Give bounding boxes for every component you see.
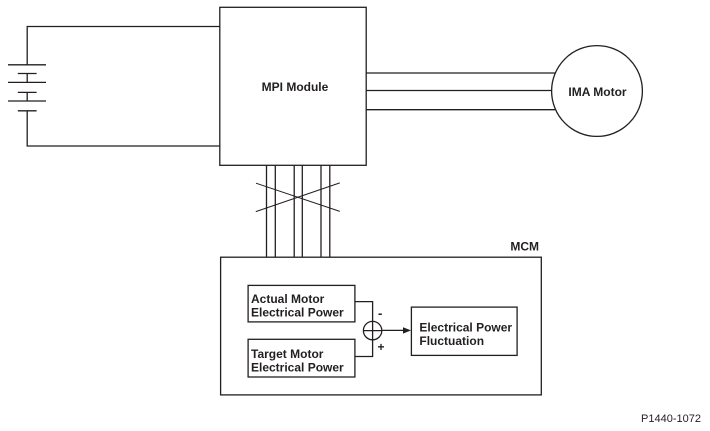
svg-text:Electrical Power: Electrical Power [419,320,512,334]
Electrical Power Fluctuation box [411,307,517,355]
svg-text:Electrical Power: Electrical Power [251,360,344,374]
Actual Motor Electrical Power box [248,285,355,322]
wire motor phase C [366,109,557,111]
battery B1 plate short 1 [18,73,37,75]
wire battery cell link 2 [26,92,28,101]
wire summing node to fluctuation box [382,329,404,331]
fault cross mark stroke 2 [256,183,340,212]
battery B1 plate long 1 [8,64,46,66]
IMA Motor circle [552,46,643,137]
svg-text:Actual Motor: Actual Motor [251,292,325,306]
MPI Module box [220,7,366,165]
svg-text:P1440-1072: P1440-1072 [641,413,701,425]
wire battery loop bottom [27,111,220,146]
svg-text:Electrical Power: Electrical Power [251,305,344,319]
wire motor phase B [366,90,553,92]
wire actual power to summing node [355,302,373,322]
wire bundle line 2 [274,165,276,257]
svg-text:+: + [377,340,384,354]
battery B1 plate short 2 [18,91,37,93]
battery B1 plate long 2 [8,81,46,83]
svg-text:Fluctuation: Fluctuation [419,334,484,348]
svg-text:Target Motor: Target Motor [251,347,324,361]
wire bundle line 6 [329,165,331,257]
svg-text:MCM: MCM [510,240,539,254]
summing junction circle [363,321,381,339]
summing junction horizontal cross line [363,330,381,332]
wire bundle line 3 [293,165,295,257]
wire battery loop top [27,27,220,65]
wire motor phase A [366,72,557,74]
summing junction vertical cross line [372,321,374,339]
svg-text:-: - [378,306,382,321]
svg-text:MPI Module: MPI Module [262,80,329,94]
wire battery cell link 1 [26,74,28,83]
wire bundle line 4 [301,165,303,257]
svg-text:IMA Motor: IMA Motor [568,85,627,99]
fault cross mark stroke 1 [256,183,340,211]
wire target power to summing node [355,340,373,357]
battery B1 plate short 3 [18,110,37,112]
Target Motor Electrical Power box [248,339,355,377]
wire bundle line 5 [320,165,322,257]
MCM box [221,257,542,395]
battery B1 plate long 3 [8,100,46,102]
wire bundle line 1 [266,165,268,257]
arrowhead into fluctuation box [403,327,411,333]
